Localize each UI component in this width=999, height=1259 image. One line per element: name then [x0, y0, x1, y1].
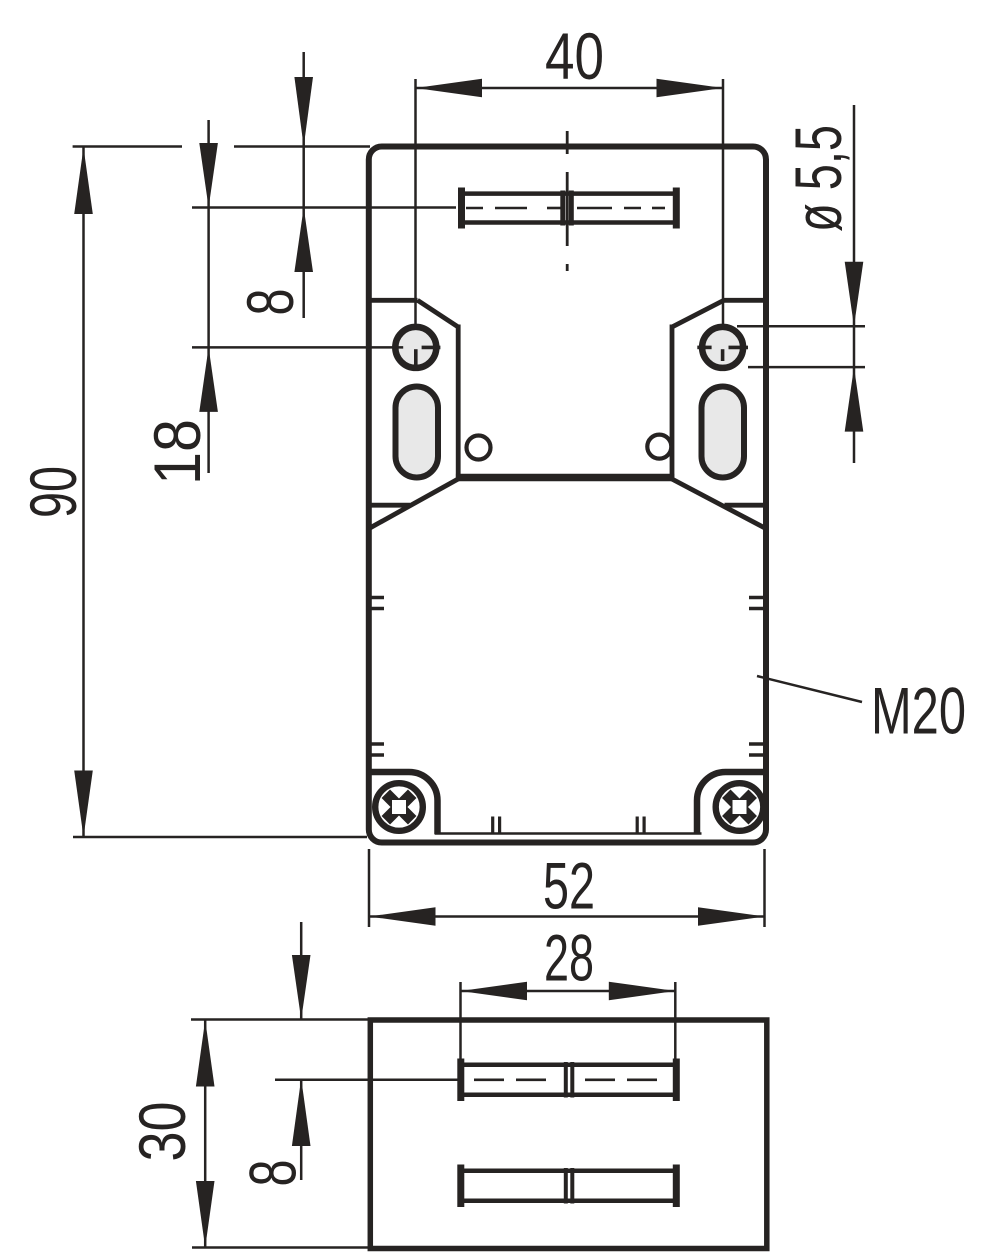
body outline bottom view [370, 1020, 767, 1249]
right screw pad [697, 772, 766, 834]
right mounting hole [702, 327, 743, 368]
right small circle [647, 435, 671, 459]
left edge tick marks [366, 598, 384, 756]
dimension 30 [191, 1020, 368, 1248]
top slot top view [461, 188, 677, 229]
M20 leader [757, 676, 862, 702]
dimension 40 arrows [416, 79, 483, 98]
dimension 8 top view [192, 52, 456, 318]
svg-text:18: 18 [140, 419, 214, 485]
svg-text:30: 30 [125, 1102, 199, 1162]
svg-text:M20: M20 [871, 674, 966, 748]
svg-text:8: 8 [233, 289, 307, 316]
left mounting hole [395, 327, 436, 368]
right screw head [716, 783, 764, 831]
vertical centerline [566, 131, 569, 271]
dimension 18 [192, 120, 403, 473]
svg-text:40: 40 [545, 19, 604, 93]
dimension 90 line [73, 147, 370, 838]
right pocket outline [672, 300, 768, 477]
bottom view slot 1 [461, 1059, 677, 1102]
dimension 40 line [416, 79, 724, 330]
bottom inner line [435, 832, 702, 835]
body outline top view [369, 147, 766, 843]
dimension 28 [461, 982, 676, 1062]
right stadium slot [702, 387, 745, 478]
lower diagonals and pocket bottoms [366, 479, 768, 529]
bottom view slot 2 [461, 1165, 677, 1208]
dimension 8 bottom view [275, 922, 458, 1180]
left stadium slot [396, 387, 439, 478]
svg-text:52: 52 [543, 849, 595, 923]
right hole center cross [697, 347, 748, 361]
dimension 52 [369, 849, 765, 927]
left screw pad [369, 772, 438, 834]
bottom tick marks [493, 817, 644, 834]
left screw phillips star [386, 794, 412, 820]
svg-text:90: 90 [16, 466, 90, 518]
svg-text:8: 8 [236, 1160, 310, 1187]
left hole center cross [416, 347, 441, 365]
dimension diameter 5,5 [737, 105, 865, 463]
top slot dashed centerline [466, 207, 665, 210]
bottom view slot 1 dashed centerline [474, 1079, 657, 1082]
svg-text:ø 5,5: ø 5,5 [781, 125, 855, 232]
left screw head [375, 783, 423, 831]
right edge tick marks [749, 598, 768, 756]
left pocket outline [366, 300, 458, 477]
svg-text:28: 28 [544, 921, 594, 995]
left small circle [467, 436, 491, 460]
right screw phillips star [726, 794, 752, 820]
dimension 90 arrows [74, 148, 93, 215]
recess bottom thick line [456, 474, 674, 482]
